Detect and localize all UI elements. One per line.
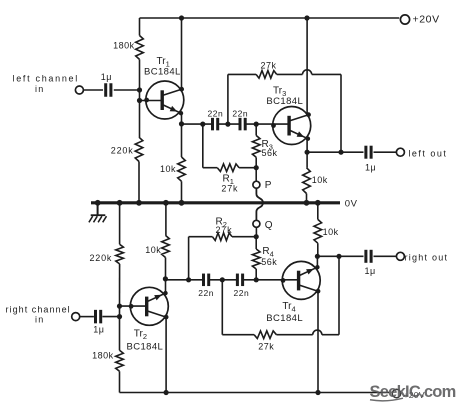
- svg-text:27k: 27k: [261, 60, 277, 70]
- svg-text:10k: 10k: [312, 175, 328, 185]
- svg-text:Q: Q: [265, 220, 273, 231]
- svg-text:SeekIC.com: SeekIC.com: [370, 383, 456, 401]
- svg-text:+20V: +20V: [413, 13, 440, 25]
- svg-text:56k: 56k: [262, 148, 278, 158]
- svg-text:27k: 27k: [216, 225, 233, 235]
- svg-text:10k: 10k: [145, 245, 161, 255]
- svg-text:10k: 10k: [323, 227, 339, 237]
- svg-text:P: P: [265, 180, 272, 191]
- svg-text:in: in: [35, 84, 44, 94]
- svg-text:BC184L: BC184L: [266, 313, 303, 324]
- svg-text:BC184L: BC184L: [127, 342, 164, 353]
- svg-text:180k: 180k: [92, 351, 114, 361]
- svg-text:right channel: right channel: [6, 304, 71, 314]
- svg-text:1μ: 1μ: [365, 266, 376, 276]
- svg-text:right out: right out: [405, 252, 449, 262]
- svg-text:0V: 0V: [345, 199, 358, 210]
- svg-text:in: in: [35, 314, 44, 324]
- svg-text:1μ: 1μ: [101, 72, 112, 82]
- svg-text:220k: 220k: [89, 253, 112, 263]
- svg-text:BC184L: BC184L: [144, 67, 181, 78]
- svg-text:180k: 180k: [113, 40, 135, 50]
- svg-text:220k: 220k: [111, 146, 134, 156]
- svg-text:22n: 22n: [232, 108, 248, 118]
- svg-text:22n: 22n: [198, 288, 214, 298]
- svg-text:10k: 10k: [160, 164, 176, 174]
- svg-text:56k: 56k: [261, 257, 277, 267]
- svg-text:1μ: 1μ: [93, 325, 104, 335]
- svg-text:27k: 27k: [258, 342, 274, 352]
- svg-text:22n: 22n: [208, 108, 224, 118]
- svg-text:left out: left out: [408, 149, 447, 159]
- svg-text:22n: 22n: [234, 288, 250, 298]
- svg-text:BC184L: BC184L: [266, 96, 303, 107]
- svg-text:27k: 27k: [221, 183, 238, 193]
- svg-text:left channel: left channel: [13, 74, 79, 84]
- svg-text:1μ: 1μ: [365, 163, 376, 173]
